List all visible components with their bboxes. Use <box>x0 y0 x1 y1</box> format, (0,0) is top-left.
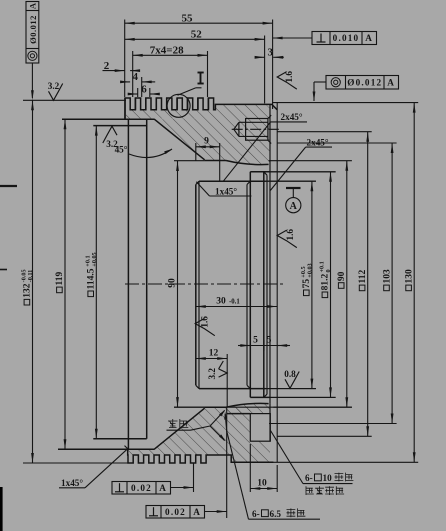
dim 10 ext r <box>276 465 278 492</box>
svg-text:7x4=28: 7x4=28 <box>150 45 184 57</box>
label sq112 <box>358 270 368 291</box>
dim 52 <box>125 38 265 40</box>
dim 12 ext <box>226 354 228 407</box>
svg-text:103: 103 <box>382 269 392 284</box>
ext sq112 top <box>277 131 372 133</box>
hatch strip above bottom fins <box>126 449 207 455</box>
left recess line <box>93 125 146 127</box>
thread mouth chamfer bottom <box>268 140 271 143</box>
svg-text:-0.11: -0.11 <box>27 270 34 283</box>
svg-text:+0.03: +0.03 <box>307 263 314 277</box>
bore left wall chamfer line <box>198 181 200 388</box>
svg-text:1.6: 1.6 <box>200 316 210 328</box>
column top edge <box>250 171 270 173</box>
column bottom edge <box>250 396 270 398</box>
roughness 3.2 mid-left <box>219 369 228 377</box>
fcf perpendicularity 0.02 A second <box>146 506 205 519</box>
svg-text:Ø0.012: Ø0.012 <box>347 78 382 88</box>
label sq119 <box>55 272 65 293</box>
dim sq130 line <box>413 103 415 463</box>
svg-text:119: 119 <box>55 272 65 286</box>
svg-text:2x45°: 2x45° <box>281 112 303 122</box>
left groove bottom <box>93 438 146 440</box>
svg-text:52: 52 <box>191 29 203 41</box>
bore left wall <box>195 185 197 386</box>
thread hole centerline <box>232 128 279 130</box>
ext sq130 bottom <box>231 461 418 463</box>
dim 2 <box>103 70 125 72</box>
svg-text:A: A <box>365 33 373 43</box>
column left wall <box>249 172 251 398</box>
thread hole outer rect <box>246 119 268 141</box>
dim 55 ext left <box>124 20 126 98</box>
column top ext right <box>270 171 336 173</box>
svg-text:0: 0 <box>325 269 332 272</box>
svg-text:6-: 6- <box>305 473 313 483</box>
dim sq103 line <box>391 143 393 424</box>
label bottom milled flat <box>306 486 314 495</box>
pocket ceiling ext <box>174 160 205 162</box>
svg-text:132: 132 <box>23 283 33 298</box>
boss left face <box>124 98 126 119</box>
svg-text:90: 90 <box>337 271 347 281</box>
right bottom step <box>269 404 271 442</box>
square hole rect <box>250 414 270 442</box>
label sq103 <box>382 269 392 291</box>
svg-text:6.5: 6.5 <box>270 509 282 519</box>
svg-text:0.02: 0.02 <box>131 483 152 493</box>
bottom chamfer 45 deg <box>154 408 204 449</box>
bore bottom ext right <box>266 388 316 390</box>
dim sq132 top ext <box>23 99 126 101</box>
svg-text:1.6: 1.6 <box>285 229 295 241</box>
detail circle <box>167 94 190 117</box>
dim 9 <box>196 146 220 148</box>
roughness 1.6 mid-right <box>277 230 297 247</box>
pocket ceiling arc <box>226 161 269 165</box>
thread hole pilot end <box>238 122 240 136</box>
label sq114.5 with tolerance <box>85 252 98 296</box>
square hole blank <box>250 414 270 442</box>
fcf concentricity vertical left <box>26 2 39 64</box>
hatch bottom block <box>154 403 270 462</box>
svg-text:10: 10 <box>257 478 267 488</box>
svg-text:1x45°: 1x45° <box>215 186 237 196</box>
dim 7x4=28 <box>133 54 208 56</box>
square hole step l <box>227 413 251 415</box>
svg-text:112: 112 <box>358 270 368 284</box>
dim sq90 line <box>346 161 348 408</box>
ext sq81.2 top <box>270 171 336 173</box>
svg-text:A: A <box>159 483 167 493</box>
scan mark left edge <box>0 185 17 187</box>
roughness 1.6 bore-wall <box>195 318 215 335</box>
fcf1 target line <box>193 463 195 492</box>
dim sq112 line <box>367 132 369 437</box>
ext sq130 top <box>272 102 418 104</box>
dim 6 ext l <box>137 88 139 97</box>
dim 52 ext right <box>264 36 266 104</box>
svg-text:9: 9 <box>204 137 209 147</box>
column chamfer b <box>264 394 267 397</box>
bore bottom edge <box>199 388 266 390</box>
dim 10 ext l <box>249 444 251 492</box>
svg-text:4: 4 <box>133 71 139 83</box>
svg-text:A: A <box>193 507 201 517</box>
svg-text:130: 130 <box>404 269 414 284</box>
fcf concentricity 0.012 A right <box>326 76 399 90</box>
top fin left edges <box>134 98 136 110</box>
column chamfer t <box>264 172 267 175</box>
pocket floor <box>205 406 227 408</box>
bore right chamfer line <box>246 185 248 386</box>
detail circle leader <box>178 88 196 96</box>
label sq75 <box>300 263 313 295</box>
dim 55 <box>125 22 273 24</box>
datum A symbol <box>286 198 301 213</box>
dim 30-0.1 <box>196 306 277 308</box>
thread hole minor top <box>239 121 268 123</box>
svg-text:2x45°: 2x45° <box>307 138 329 148</box>
dim 4 ext <box>141 77 143 97</box>
svg-text:3.2: 3.2 <box>48 81 60 91</box>
thread mouth chamfer top <box>268 115 271 118</box>
center protrusion edge line <box>226 407 228 518</box>
pocket floor arc <box>226 403 269 407</box>
label sq90 <box>337 271 347 288</box>
label qinggen with leaders <box>168 419 178 428</box>
svg-text:1x45°: 1x45° <box>61 478 83 488</box>
bore chamfer tr <box>247 181 250 184</box>
dim sq81.2 line <box>330 172 332 398</box>
scan mark left edge 2 <box>0 269 7 271</box>
roughness 0.8 <box>285 372 299 389</box>
ext sq103 bottom <box>269 423 397 425</box>
dim sq132 bottom ext <box>23 462 128 464</box>
column inner line <box>266 175 268 394</box>
hatch under top fins <box>126 110 207 119</box>
dim 9 ext l <box>195 143 197 161</box>
hatch top block <box>154 104 270 164</box>
label sq132 with tolerance <box>21 269 34 305</box>
dim 90 line <box>177 161 179 407</box>
svg-text:45°: 45° <box>115 145 128 155</box>
svg-text:6-: 6- <box>252 509 260 519</box>
dim sq132 line <box>32 100 34 463</box>
dim 6 <box>130 93 138 95</box>
detail label I <box>200 73 202 84</box>
inner left wall 2 <box>146 119 148 439</box>
svg-text:55: 55 <box>182 12 194 24</box>
svg-text:A: A <box>387 78 395 88</box>
svg-text:90: 90 <box>168 278 178 288</box>
svg-text:5: 5 <box>267 336 272 346</box>
scan bar bottom-left <box>0 487 3 531</box>
dim 7x4=28 ext left <box>132 51 134 97</box>
bottom-left face line <box>58 448 155 450</box>
roughness 3.2 left-upside <box>103 126 117 143</box>
inner left wall <box>127 119 129 449</box>
bore chamfer br <box>247 385 250 388</box>
flange chamfer bottom-left <box>125 446 129 450</box>
label 90 <box>168 278 178 288</box>
pocket floor edge right <box>174 406 352 408</box>
pocket floor ext <box>174 406 205 408</box>
ext sq90 top <box>269 160 352 162</box>
dim 55 ext right <box>272 20 274 110</box>
dim sq114.5 line <box>95 126 97 439</box>
svg-text:0.010: 0.010 <box>333 33 360 43</box>
svg-text:30: 30 <box>216 297 226 307</box>
svg-text:Ø0.012: Ø0.012 <box>28 15 38 44</box>
column bottom ext right <box>270 396 336 398</box>
svg-text:-0.1: -0.1 <box>229 299 240 306</box>
top-left face line <box>62 118 155 120</box>
bore top edge <box>199 180 266 182</box>
roughness 3.2 top-left <box>49 84 63 101</box>
svg-text:10: 10 <box>323 473 333 483</box>
svg-text:2: 2 <box>104 60 110 72</box>
roughness 1.6 right-top <box>277 72 297 89</box>
right face line <box>276 103 278 462</box>
svg-text:+0.05: +0.05 <box>91 252 98 266</box>
bore chamfer bl <box>196 385 199 388</box>
dim 10 <box>250 488 277 490</box>
svg-text:12: 12 <box>209 348 219 358</box>
dim 12 <box>196 358 227 360</box>
bore top ext right <box>266 180 316 182</box>
svg-text:81.2: 81.2 <box>321 274 331 291</box>
svg-text:5: 5 <box>253 336 258 346</box>
svg-text:1.6: 1.6 <box>284 71 294 83</box>
dim 4 <box>124 81 131 83</box>
svg-text:0.8: 0.8 <box>284 369 296 379</box>
label sq130 <box>404 269 414 291</box>
dim sq119 line <box>64 119 66 449</box>
ext sq75 top <box>266 180 316 182</box>
ext sq112 bottom <box>277 435 372 437</box>
svg-text:A: A <box>28 2 38 9</box>
ext sq90 bottom <box>273 406 352 408</box>
dim 9 ext r <box>219 143 221 181</box>
top fins profile <box>125 98 277 119</box>
bore chamfer tl <box>196 181 199 184</box>
thread hole minor bottom <box>239 135 268 137</box>
top chamfer 45 deg <box>154 119 204 160</box>
svg-text:114.5: 114.5 <box>87 268 97 289</box>
svg-text:6: 6 <box>141 83 147 95</box>
bottom fins profile <box>128 449 274 463</box>
dim sq75 line <box>311 181 313 388</box>
ext sq75 bottom <box>266 388 316 390</box>
pocket ceiling <box>205 160 226 162</box>
column right wall <box>263 172 265 398</box>
svg-text:75: 75 <box>302 279 312 289</box>
hatch center protrusion <box>227 407 251 413</box>
label sq81.2 <box>319 261 332 297</box>
right step vertical <box>269 104 271 403</box>
svg-text:0.02: 0.02 <box>165 507 186 517</box>
ext sq103 top <box>277 142 396 144</box>
horizontal centerline <box>125 283 283 285</box>
svg-text:3.2: 3.2 <box>207 368 217 380</box>
svg-text:A: A <box>290 201 298 212</box>
dim 5 5 <box>238 345 250 347</box>
dim 3 <box>257 56 265 58</box>
thread drill point <box>234 122 239 136</box>
ext sq81.2 bottom <box>270 396 336 398</box>
dim 6 ext r <box>149 88 151 97</box>
dim 7x4=28 ext right <box>207 51 209 97</box>
fcf perpendicularity 0.02 A first <box>112 482 171 495</box>
fcf perpendicularity 0.010 A <box>312 32 377 45</box>
svg-text:3: 3 <box>268 47 274 59</box>
